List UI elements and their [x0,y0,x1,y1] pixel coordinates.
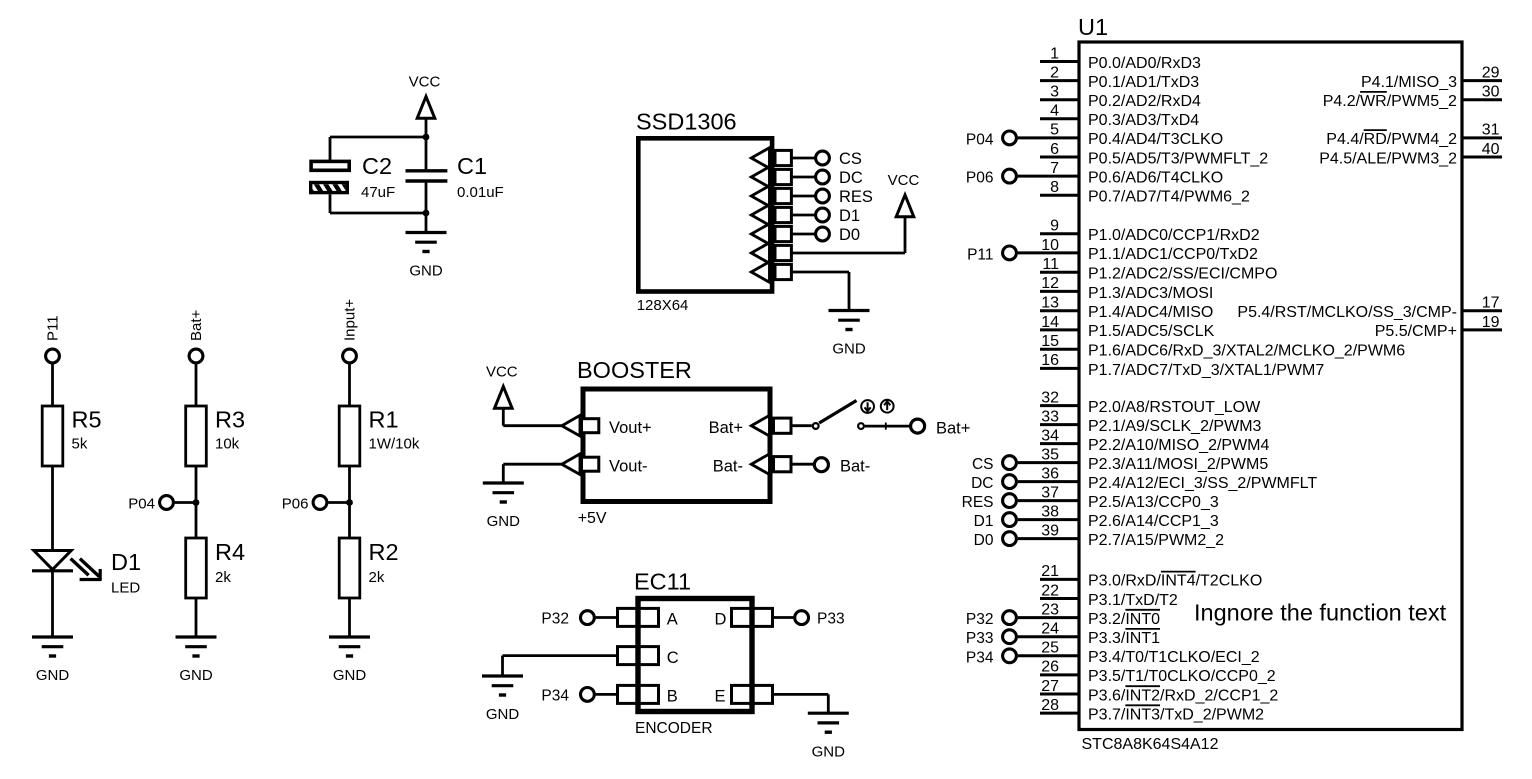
wire P34 to pin B [596,693,618,696]
svg-text:128X64: 128X64 [637,297,689,314]
node P06 [313,496,353,510]
svg-text:3: 3 [1050,84,1059,101]
svg-text:P3.0/RxD/INT4/T2CLKO: P3.0/RxD/INT4/T2CLKO [1088,573,1262,590]
svg-text:P3.7/INT3/TxD_2/PWM2: P3.7/INT3/TxD_2/PWM2 [1088,706,1264,723]
U1 pin 29: P4.1/MISO_3 [1361,64,1502,91]
svg-text:34: 34 [1041,427,1059,444]
capacitor C1 0.01uF [406,137,448,213]
svg-text:11: 11 [1042,256,1059,273]
power VCC symbol above C1 [409,74,441,138]
svg-text:DC: DC [971,475,993,492]
svg-text:DC: DC [839,169,863,187]
U1 pin 27: P3.6/INT2/RxD_2/CCP1_2 [1040,678,1278,705]
svg-text:2k: 2k [215,569,231,586]
svg-text:23: 23 [1041,601,1059,618]
wire SSD1306 VCC pin to VCC symbol [791,217,905,253]
power VCC symbol (SSD1306) [888,172,920,217]
wire Vout- to ground [503,464,562,483]
svg-text:RES: RES [962,494,994,511]
wire SSD1306 GND pin down [791,272,849,311]
wire [791,176,814,179]
U1 pin 32: P2.0/A8/RSTOUT_LOW [1040,389,1261,416]
svg-text:RES: RES [839,188,873,206]
U1 pin 37: P2.5/A13/CCP0_3 [962,484,1219,511]
svg-text:P5.4/RST/MCLKO/SS_3/CMP-: P5.4/RST/MCLKO/SS_3/CMP- [1237,304,1457,321]
U1 pin 13: P1.4/ADC4/MISO [1040,295,1213,322]
svg-text:D0: D0 [974,532,994,549]
svg-text:+5V: +5V [578,510,607,527]
wire [348,364,351,406]
svg-text:P34: P34 [541,687,569,704]
terminal Bat- [814,458,828,472]
U1 pin 17: P5.4/RST/MCLKO/SS_3/CMP- [1237,295,1502,322]
svg-text:Bat-: Bat- [840,458,870,476]
U1 pin 6: P0.5/AD5/T3/PWMFLT_2 [1040,141,1268,168]
wire Bat- pin to terminal [791,463,813,466]
svg-text:Bat+: Bat+ [188,309,205,341]
U1 pin 12: P1.3/ADC3/MOSI [1040,275,1213,302]
terminal Bat+ [911,419,925,433]
U1 pin 30: P4.2/WR/PWM5_2 [1323,84,1502,111]
node junction top [423,134,430,141]
resistor R3 [186,406,207,466]
svg-text:C2: C2 [362,153,392,179]
svg-text:P11: P11 [45,315,62,341]
svg-text:6: 6 [1050,141,1059,158]
resistor R5 [42,406,63,466]
svg-text:VCC: VCC [888,172,920,189]
svg-text:Bat+: Bat+ [709,419,743,437]
svg-text:D1: D1 [111,549,141,575]
resistor R2 [339,538,360,598]
svg-text:GND: GND [487,513,521,530]
svg-text:P5.5/CMP+: P5.5/CMP+ [1375,323,1457,340]
svg-text:28: 28 [1041,697,1059,714]
svg-text:10k: 10k [215,436,240,453]
switch direction icon down-arrow [861,400,874,413]
svg-text:P2.5/A13/CCP0_3: P2.5/A13/CCP0_3 [1088,494,1219,511]
svg-text:32: 32 [1041,389,1059,406]
svg-text:15: 15 [1041,333,1059,350]
svg-text:Vout+: Vout+ [609,419,652,437]
U1 pin 10: P1.1/ADC1/CCP0/TxD2 [967,237,1258,264]
terminal D0 [816,227,830,241]
terminal DC [816,170,830,184]
capacitor C2 47uF (polarized) [305,137,361,213]
U1 pin 28: P3.7/INT3/TxD_2/PWM2 [1040,697,1264,724]
SSD1306 pin RES: arrow + pad [751,186,791,207]
BOOSTER pin Vout- [562,454,599,475]
svg-text:24: 24 [1041,621,1059,638]
switch SW1 second contact [858,423,864,429]
IC U1 box [1079,42,1462,730]
svg-text:5k: 5k [72,436,88,453]
terminal P11 [46,349,60,363]
svg-text:P11: P11 [967,246,993,263]
svg-text:16: 16 [1041,352,1059,369]
U1 pin 24: P3.3/INT1 [966,621,1160,648]
ground (SSD1306) [829,311,870,358]
wire [348,466,351,538]
U1 pin 5: P0.4/AD4/T3CLKO [966,122,1223,149]
svg-text:D1: D1 [974,513,994,530]
svg-text:0.01uF: 0.01uF [457,184,504,201]
switch direction icon up-arrow [881,400,894,413]
svg-text:C: C [667,649,679,667]
svg-text:P0.7/AD7/T4/PWM6_2: P0.7/AD7/T4/PWM6_2 [1088,189,1250,206]
svg-text:2k: 2k [369,569,385,586]
svg-text:29: 29 [1482,64,1500,81]
wire C2 bottom to GND node [330,212,426,215]
BOOSTER pin Vout+ [562,415,599,436]
U1 pin 31: P4.4/RD/PWM4_2 [1326,122,1502,149]
svg-text:P2.3/A11/MOSI_2/PWM5: P2.3/A11/MOSI_2/PWM5 [1088,456,1268,473]
U1 pin 8: P0.7/AD7/T4/PWM6_2 [1040,179,1250,206]
svg-text:P2.0/A8/RSTOUT_LOW: P2.0/A8/RSTOUT_LOW [1088,399,1261,416]
terminal P34 [581,688,595,702]
U1 pin 14: P1.5/ADC5/SCLK [1040,314,1215,340]
terminal CS [816,151,830,165]
svg-text:BOOSTER: BOOSTER [577,357,692,383]
terminal Bat+ [189,349,203,363]
svg-text:2: 2 [1050,64,1059,81]
terminal P32 [581,611,595,625]
U1 pin 22: P3.1/TxD/T2 [1040,582,1178,609]
switch SW1 contact [813,423,819,429]
svg-text:P2.2/A10/MISO_2/PWM4: P2.2/A10/MISO_2/PWM4 [1088,437,1270,454]
U1 pin 23: P3.2/INT0 [966,601,1160,628]
svg-text:5: 5 [1050,122,1059,139]
svg-text:P33: P33 [817,611,845,628]
svg-text:D0: D0 [839,226,860,244]
svg-text:P3.6/INT2/RxD_2/CCP1_2: P3.6/INT2/RxD_2/CCP1_2 [1088,687,1278,704]
svg-text:B: B [667,688,678,706]
wire [195,598,198,637]
svg-text:R2: R2 [369,539,399,565]
BOOSTER pin Bat- [751,454,791,475]
wire [791,195,814,198]
svg-text:P1.7/ADC7/TxD_3/XTAL1/PWM7: P1.7/ADC7/TxD_3/XTAL1/PWM7 [1088,362,1324,379]
svg-text:P34: P34 [966,649,994,666]
module SSD1306 box [638,138,772,291]
U1 pin 21: P3.0/RxD/INT4/T2CLKO [1040,563,1262,590]
ground [329,637,370,684]
SSD1306 pin DC: arrow + pad [751,167,791,188]
svg-text:37: 37 [1041,484,1059,501]
ground [32,637,73,684]
svg-text:P1.1/ADC1/CCP0/TxD2: P1.1/ADC1/CCP0/TxD2 [1088,246,1258,263]
svg-text:CS: CS [972,456,994,473]
U1 pin 7: P0.6/AD6/T4CLKO [966,160,1223,187]
svg-text:13: 13 [1041,295,1059,312]
svg-text:R5: R5 [72,407,102,433]
svg-text:GND: GND [812,743,846,760]
svg-text:P32: P32 [541,611,569,628]
terminal Input+ [343,349,357,363]
ground [176,637,217,684]
svg-text:P2.7/A15/PWM2_2: P2.7/A15/PWM2_2 [1088,532,1224,549]
SSD1306 pin D0: arrow + pad [751,224,791,245]
svg-text:P1.4/ADC4/MISO: P1.4/ADC4/MISO [1088,304,1213,321]
wire pin C to ground [503,656,618,676]
svg-text:30: 30 [1482,84,1500,101]
svg-text:4: 4 [1050,103,1059,120]
svg-text:P0.0/AD0/RxD3: P0.0/AD0/RxD3 [1088,55,1201,72]
terminal P33 [795,611,809,625]
svg-text:17: 17 [1482,295,1500,312]
svg-text:39: 39 [1041,522,1059,539]
node junction bottom [423,210,430,217]
svg-text:33: 33 [1041,408,1059,425]
svg-text:P2.6/A14/CCP1_3: P2.6/A14/CCP1_3 [1088,513,1219,530]
svg-text:Bat+: Bat+ [936,419,970,437]
svg-text:GND: GND [832,341,866,358]
resistor R1 [339,406,360,466]
U1 pin 40: P4.5/ALE/PWM3_2 [1319,141,1502,168]
svg-text:P4.5/ALE/PWM3_2: P4.5/ALE/PWM3_2 [1319,150,1457,167]
svg-text:SSD1306: SSD1306 [636,109,737,135]
wire Bat+ pin to switch [791,424,812,427]
ground (EC11 C) [482,676,523,723]
svg-text:A: A [667,611,678,629]
svg-text:EC11: EC11 [634,569,691,595]
svg-text:R1: R1 [369,407,399,433]
svg-text:Ingnore the function text: Ingnore the function text [1194,600,1447,626]
U1 pin 2: P0.1/AD1/TxD3 [1040,64,1199,91]
svg-text:VCC: VCC [409,74,441,91]
svg-text:P33: P33 [966,630,994,647]
svg-text:D: D [715,611,727,629]
svg-text:25: 25 [1041,640,1059,657]
wire C2 top to VCC node [330,136,426,139]
svg-text:P0.2/AD2/RxD4: P0.2/AD2/RxD4 [1088,93,1201,110]
EC11 pin D pad [732,608,773,626]
U1 pin 34: P2.2/A10/MISO_2/PWM4 [1040,427,1270,454]
svg-text:10: 10 [1041,237,1059,254]
EC11 pin A pad [618,608,659,626]
svg-text:P4.4/RD/PWM4_2: P4.4/RD/PWM4_2 [1326,131,1457,148]
svg-text:C1: C1 [457,153,487,179]
svg-text:P32: P32 [966,611,994,628]
U1 pin 35: P2.3/A11/MOSI_2/PWM5 [972,446,1268,473]
EC11 pin C pad [618,647,659,665]
svg-text:P1.2/ADC2/SS/ECI/CMPO: P1.2/ADC2/SS/ECI/CMPO [1088,266,1277,283]
svg-text:ENCODER: ENCODER [635,720,713,737]
svg-text:19: 19 [1482,314,1500,331]
U1 pin 33: P2.1/A9/SCLK_2/PWM3 [1040,408,1262,435]
terminal D1 [816,208,830,222]
wire [195,364,198,406]
svg-text:P4.2/WR/PWM5_2: P4.2/WR/PWM5_2 [1323,93,1457,110]
svg-text:P3.5/T1/T0CLKO/CCP0_2: P3.5/T1/T0CLKO/CCP0_2 [1088,668,1276,685]
U1 pin 11: P1.2/ADC2/SS/ECI/CMPO [1040,256,1277,283]
svg-text:E: E [715,688,726,706]
U1 pin 36: P2.4/A12/ECI_3/SS_2/PWMFLT [971,465,1317,492]
U1 pin 4: P0.3/AD3/TxD4 [1040,103,1199,130]
wire [51,364,54,406]
wire [51,466,54,551]
BOOSTER pin Bat+ [751,415,791,436]
svg-text:7: 7 [1050,160,1059,177]
U1 pin 1: P0.0/AD0/RxD3 [1040,45,1201,72]
svg-text:P3.3/INT1: P3.3/INT1 [1088,630,1160,647]
svg-text:8: 8 [1050,179,1059,196]
ground (EC11 E) [808,713,849,760]
svg-text:31: 31 [1482,122,1500,139]
svg-text:P04: P04 [128,496,155,513]
svg-text:9: 9 [1050,218,1059,235]
svg-text:22: 22 [1041,582,1059,599]
svg-text:38: 38 [1041,503,1059,520]
svg-text:12: 12 [1041,275,1059,292]
svg-text:Vout-: Vout- [609,458,648,476]
svg-text:LED: LED [111,580,140,597]
U1 pin 9: P1.0/ADC0/CCP1/RxD2 [1040,218,1260,245]
svg-text:GND: GND [409,263,443,280]
U1 pin 19: P5.5/CMP+ [1375,314,1502,340]
svg-text:P0.4/AD4/T3CLKO: P0.4/AD4/T3CLKO [1088,131,1223,148]
svg-text:P4.1/MISO_3: P4.1/MISO_3 [1361,74,1457,91]
svg-text:14: 14 [1041,314,1059,331]
svg-text:U1: U1 [1078,14,1108,40]
wire [791,157,814,160]
svg-text:P0.3/AD3/TxD4: P0.3/AD3/TxD4 [1088,112,1199,129]
svg-text:P1.3/ADC3/MOSI: P1.3/ADC3/MOSI [1088,285,1213,302]
U1 pin 15: P1.6/ADC6/RxD_3/XTAL2/MCLKO_2/PWM6 [1040,333,1405,360]
U1 pin 39: P2.7/A15/PWM2_2 [974,522,1225,549]
svg-text:GND: GND [486,706,520,723]
svg-text:P3.2/INT0: P3.2/INT0 [1088,611,1160,628]
module EC11 box [638,599,752,712]
switch wire tick [885,423,887,430]
svg-text:P1.6/ADC6/RxD_3/XTAL2/MCLKO_2/: P1.6/ADC6/RxD_3/XTAL2/MCLKO_2/PWM6 [1088,343,1405,360]
wire P32 to pin A [596,616,618,619]
ground below C1 [406,213,447,280]
svg-text:1W/10k: 1W/10k [369,436,420,453]
svg-text:P0.1/AD1/TxD3: P0.1/AD1/TxD3 [1088,74,1199,91]
SSD1306 pin D1: arrow + pad [751,205,791,226]
wire [51,571,54,637]
svg-text:D1: D1 [839,207,860,225]
svg-text:47uF: 47uF [361,184,395,201]
U1 pin 38: P2.6/A14/CCP1_3 [974,503,1219,530]
svg-text:GND: GND [36,667,70,684]
node P04 [160,496,200,510]
wire VCC to Vout+ [503,424,562,427]
resistor R4 [186,538,207,598]
svg-text:36: 36 [1041,465,1059,482]
terminal RES [816,189,830,203]
SSD1306 pin GND pin: arrow + pad [751,262,791,283]
svg-text:P1.0/ADC0/CCP1/RxD2: P1.0/ADC0/CCP1/RxD2 [1088,227,1260,244]
wire [791,214,814,217]
svg-text:P0.5/AD5/T3/PWMFLT_2: P0.5/AD5/T3/PWMFLT_2 [1088,150,1268,167]
SSD1306 pin VCC pin: arrow + pad [751,243,791,264]
svg-text:21: 21 [1041,563,1059,580]
wire [348,598,351,637]
svg-text:P3.4/T0/T1CLKO/ECI_2: P3.4/T0/T1CLKO/ECI_2 [1088,649,1260,666]
EC11 pin B pad [618,685,659,703]
svg-text:Bat-: Bat- [713,458,743,476]
svg-text:R4: R4 [215,539,245,565]
wire pin E to ground [773,694,829,713]
U1 pin 16: P1.7/ADC7/TxD_3/XTAL1/PWM7 [1040,352,1324,379]
svg-text:GND: GND [179,667,213,684]
wire [791,233,814,236]
svg-text:GND: GND [333,667,367,684]
svg-text:27: 27 [1041,678,1059,695]
svg-text:1: 1 [1050,45,1059,62]
svg-text:P1.5/ADC5/SCLK: P1.5/ADC5/SCLK [1088,323,1215,340]
wire pin D to P33 [773,616,794,619]
switch SW1 lever [819,401,856,424]
module BOOSTER box [583,389,770,502]
svg-text:CS: CS [839,150,862,168]
SSD1306 pin CS: arrow + pad [751,148,791,169]
svg-text:35: 35 [1041,446,1059,463]
svg-text:P0.6/AD6/T4CLKO: P0.6/AD6/T4CLKO [1088,169,1223,186]
svg-text:P06: P06 [282,496,309,513]
LED D1 [32,551,102,581]
svg-text:R3: R3 [215,407,245,433]
svg-text:40: 40 [1482,141,1500,158]
svg-text:P2.4/A12/ECI_3/SS_2/PWMFLT: P2.4/A12/ECI_3/SS_2/PWMFLT [1088,475,1317,492]
svg-text:STC8A8K64S4A12: STC8A8K64S4A12 [1082,736,1219,753]
svg-text:Input+: Input+ [342,299,359,341]
svg-text:VCC: VCC [486,364,518,381]
U1 pin 25: P3.4/T0/T1CLKO/ECI_2 [966,640,1260,667]
wire [195,466,198,538]
svg-text:P04: P04 [966,131,994,148]
ground (BOOSTER) [483,483,524,530]
svg-text:P3.1/TxD/T2: P3.1/TxD/T2 [1088,592,1178,609]
svg-text:26: 26 [1041,659,1059,676]
wire switch to Bat+ terminal [865,425,910,428]
U1 pin 26: P3.5/T1/T0CLKO/CCP0_2 [1040,659,1276,686]
svg-text:P06: P06 [966,170,994,187]
svg-text:P2.1/A9/SCLK_2/PWM3: P2.1/A9/SCLK_2/PWM3 [1088,418,1262,435]
power VCC symbol (BOOSTER) [486,364,518,426]
U1 pin 3: P0.2/AD2/RxD4 [1040,84,1201,111]
EC11 pin E pad [732,685,773,703]
